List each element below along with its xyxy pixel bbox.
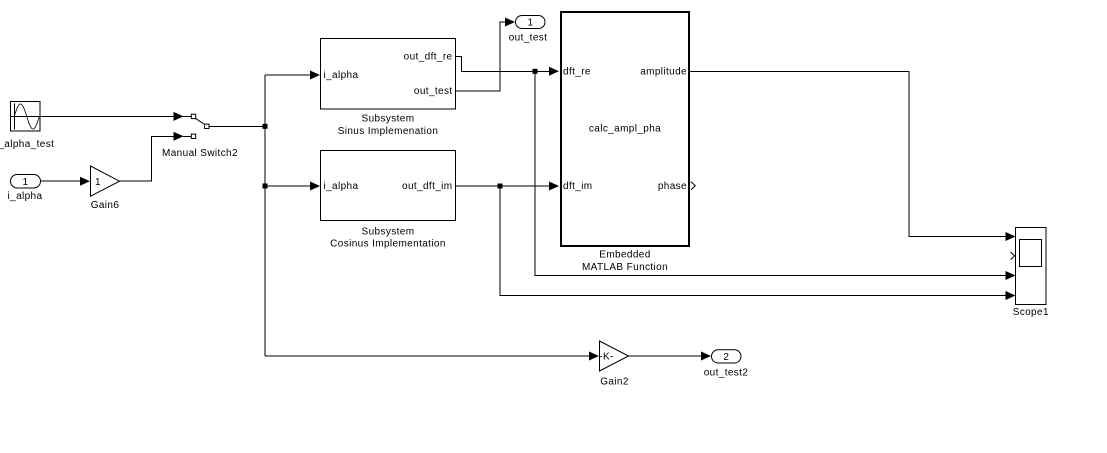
arrowhead into out_test2 outport <box>701 352 711 361</box>
gain Gain2 <box>599 341 629 388</box>
svg-text:Subsystem: Subsystem <box>362 114 415 125</box>
wire trunk to Cosinus subsystem i_alpha <box>265 185 311 187</box>
svg-text:out_test2: out_test2 <box>704 368 749 379</box>
svg-text:out_test: out_test <box>509 33 548 44</box>
svg-text:Gain6: Gain6 <box>91 200 120 211</box>
junction node A switch output <box>263 124 268 129</box>
wire Gain2 to out_test2 outport <box>629 355 703 357</box>
wire Manual Switch2 output to node A <box>209 125 265 127</box>
wire out_test port to out_test outport <box>456 22 507 91</box>
svg-text:Embedded: Embedded <box>599 250 650 261</box>
sine wave source i_alpha_test <box>0 102 54 151</box>
svg-text:amplitude: amplitude <box>640 67 687 78</box>
subsystem Cosinus Implementation <box>321 151 456 250</box>
arrowhead into out_test outport <box>505 18 515 27</box>
svg-text:dft_im: dft_im <box>563 181 593 192</box>
svg-text:Sinus Implemenation: Sinus Implemenation <box>338 126 439 137</box>
svg-text:i_alpha_test: i_alpha_test <box>0 139 54 150</box>
wire i_alpha inport to Gain6 <box>41 180 82 182</box>
svg-text:calc_ampl_pha: calc_ampl_pha <box>589 124 661 135</box>
inport 1 i_alpha <box>8 175 43 203</box>
svg-text:i_alpha: i_alpha <box>8 191 43 202</box>
wire trunk bottom to Gain2 <box>265 355 590 357</box>
arrowhead into Scope1 input 3 <box>1006 271 1016 280</box>
arrowhead into Manual Switch2 bottom <box>174 132 192 141</box>
svg-text:Manual Switch2: Manual Switch2 <box>162 148 238 159</box>
arrowhead into Sinus i_alpha <box>310 71 320 80</box>
outport 2 out_test2 <box>704 350 749 379</box>
embedded MATLAB function calc_ampl_pha <box>561 12 689 273</box>
arrowhead into Cosinus i_alpha <box>310 182 320 191</box>
scope Scope1 <box>1013 228 1049 319</box>
wire Gain6 output up to Manual Switch2 bottom input <box>120 136 176 181</box>
wire out_dft_re to dft_re <box>456 56 551 71</box>
junction node A cosinus branch <box>263 184 268 189</box>
arrowhead into dft_im <box>549 182 559 191</box>
arrowhead into Gain2 <box>589 352 599 361</box>
manual switch Manual Switch2 <box>162 114 238 159</box>
svg-text:out_dft_re: out_dft_re <box>404 51 453 62</box>
outport 1 out_test <box>509 16 548 44</box>
svg-text:Scope1: Scope1 <box>1013 307 1049 318</box>
unconnected Scope1 input 2 chevron <box>1011 252 1015 260</box>
svg-text:MATLAB Function: MATLAB Function <box>582 262 668 273</box>
unconnected phase output chevron <box>691 182 695 190</box>
arrowhead into Scope1 input 4 <box>1006 291 1016 300</box>
svg-text:dft_re: dft_re <box>563 67 591 78</box>
svg-text:i_alpha: i_alpha <box>324 181 359 192</box>
wire dft_re node down to Scope1 input 3 <box>535 71 1007 275</box>
svg-text:Cosinus Implementation: Cosinus Implementation <box>330 239 446 250</box>
svg-text:1: 1 <box>23 177 29 188</box>
wire dft_im node down to Scope1 input 4 <box>500 186 1007 296</box>
arrowhead into dft_re <box>549 67 559 76</box>
svg-text:i_alpha: i_alpha <box>324 70 359 81</box>
subsystem Sinus Implemenation <box>321 39 456 138</box>
svg-text:out_test: out_test <box>414 86 453 97</box>
gain Gain6 <box>91 166 120 211</box>
svg-text:Gain2: Gain2 <box>600 377 629 388</box>
junction node dft_im scope branch <box>498 184 503 189</box>
arrowhead into Manual Switch2 top <box>174 112 192 121</box>
wire out_dft_im to dft_im <box>456 185 551 187</box>
svg-text:1: 1 <box>528 18 534 29</box>
svg-text:-K-: -K- <box>599 351 613 362</box>
svg-text:out_dft_im: out_dft_im <box>402 181 453 192</box>
arrowhead into Gain6 <box>80 177 90 186</box>
junction node dft_re scope branch <box>533 69 538 74</box>
arrowhead into Scope1 input 1 <box>1006 232 1016 241</box>
svg-text:phase: phase <box>658 181 687 192</box>
wire amplitude to Scope1 input 1 <box>690 71 1007 236</box>
wire trunk to Sinus subsystem i_alpha <box>265 74 311 76</box>
svg-text:Subsystem: Subsystem <box>362 227 415 238</box>
wire node A vertical trunk <box>264 75 266 356</box>
svg-text:1: 1 <box>95 177 101 188</box>
svg-text:2: 2 <box>723 352 729 363</box>
wire sine source to Manual Switch2 top input <box>40 115 175 117</box>
